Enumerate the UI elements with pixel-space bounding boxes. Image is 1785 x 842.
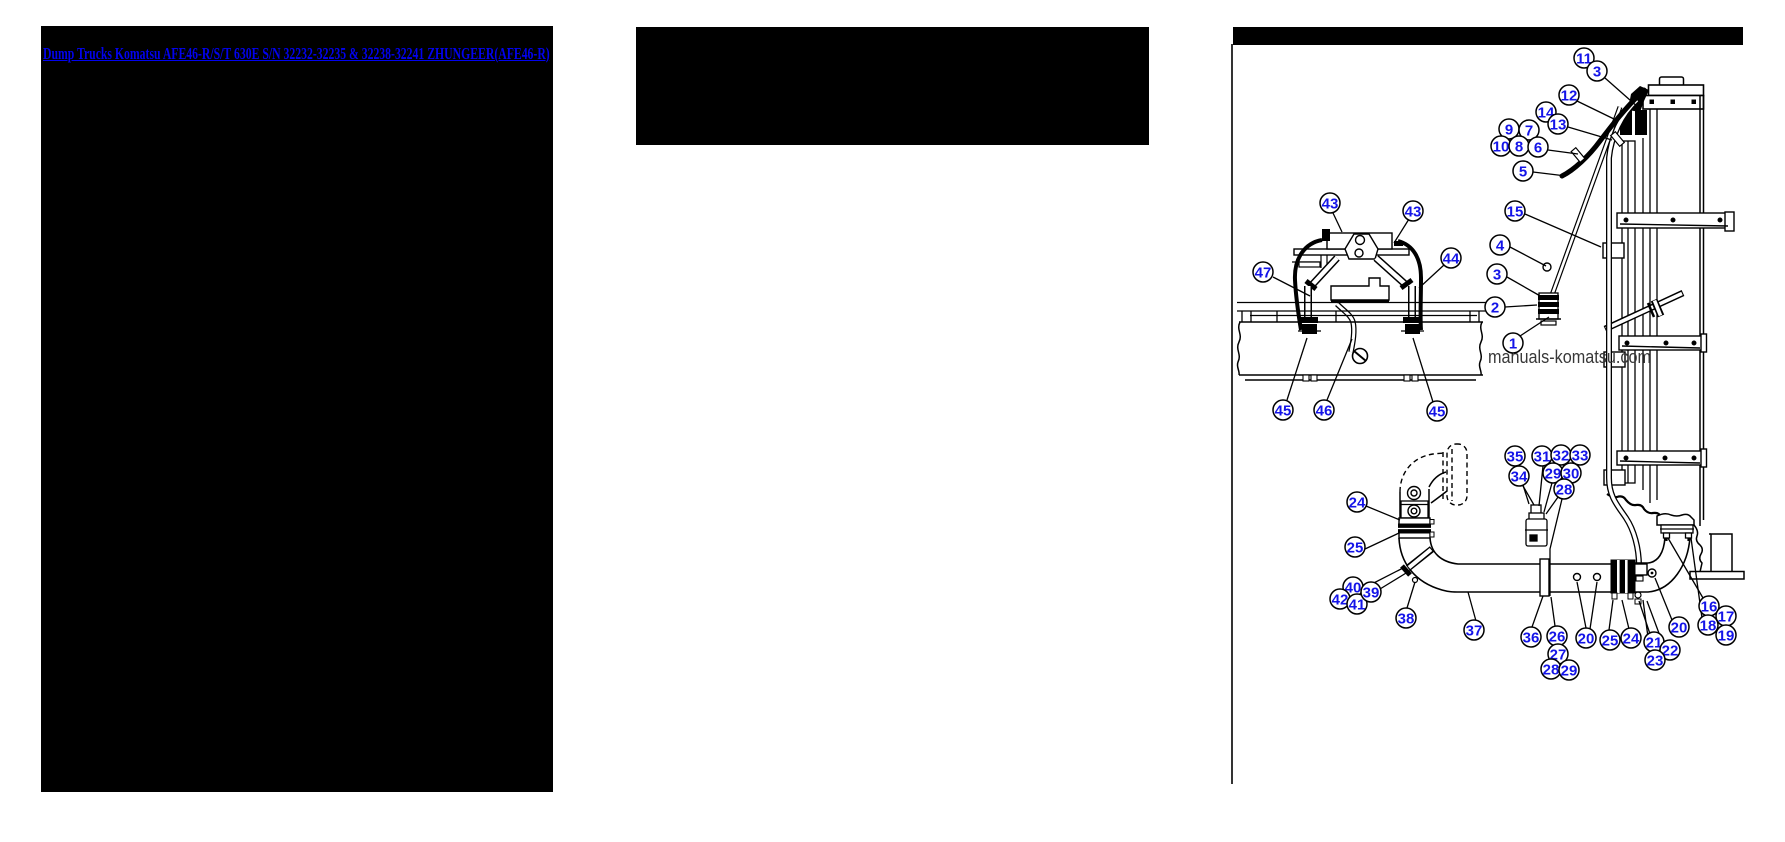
callout 1 [1503,333,1523,353]
leader 43a [1333,213,1342,232]
leader 36 [1532,596,1543,627]
svg-text:28: 28 [1543,662,1560,679]
leader 45a [1287,338,1307,400]
svg-text:13: 13 [1550,117,1567,134]
radiator filler cap [1660,77,1684,86]
svg-text:37: 37 [1466,623,1483,640]
shroud cap [1657,514,1694,525]
drain tube (item 46) [1337,304,1354,352]
callout 33 [1570,445,1590,465]
callout 45 [1427,401,1447,421]
u-bolt nuts [1303,375,1418,381]
callout 10 [1491,136,1511,156]
top right black banner [1233,27,1743,45]
pipe bolt b [1594,574,1601,581]
sensor assembly (items 26-35) [1525,505,1548,546]
svg-text:45: 45 [1275,403,1292,420]
svg-text:43: 43 [1405,204,1422,221]
svg-text:24: 24 [1349,495,1366,512]
channel clamp middle [1604,352,1625,367]
elbow bolt plate [1401,501,1428,518]
svg-text:35: 35 [1507,449,1524,466]
lower pipe bend and run (item 37) [1399,538,1612,592]
callout 30 [1561,463,1581,483]
callout 24 [1621,628,1641,648]
grommet (item 4) [1543,263,1551,271]
svg-text:18: 18 [1700,618,1717,635]
leader 47 [1273,277,1310,296]
vent tube (item 3) [1552,107,1620,295]
leader 15 [1525,214,1601,247]
callout 29 [1543,463,1563,483]
left black panel [41,26,553,792]
radiator left channel [1622,138,1643,490]
tank body [1331,278,1389,301]
leader 45b [1413,338,1433,402]
leader 31 [1539,466,1543,506]
hose stack (items 1,2) [1536,293,1561,325]
bar left stub [1292,262,1321,267]
leader 2 [1505,305,1537,307]
right slant hose [1376,258,1405,284]
callout 2 [1485,297,1505,317]
svg-text:47: 47 [1255,265,1272,282]
callout 6 [1528,137,1548,157]
leader 30 [1546,483,1568,514]
svg-text:29: 29 [1561,663,1578,680]
leader 29t [1544,483,1552,512]
leader 20a1 [1577,582,1586,628]
svg-text:20: 20 [1578,631,1595,648]
svg-text:45: 45 [1429,404,1446,421]
svg-text:39: 39 [1363,585,1380,602]
svg-text:8: 8 [1515,139,1523,156]
outlet hose clamp block (items 21-25) [1611,560,1641,604]
callout 31 [1532,446,1552,466]
tube end fitting [1634,564,1647,575]
svg-text:46: 46 [1316,403,1333,420]
callout 7 [1519,120,1539,140]
svg-text:3: 3 [1493,267,1501,284]
frame rail upper board [1237,303,1489,323]
leader 3b [1507,277,1542,297]
left hose clamps (item 45) [1298,317,1321,334]
svg-text:23: 23 [1647,653,1664,670]
leader 25a [1365,533,1399,549]
svg-text:24: 24 [1623,631,1640,648]
callout 29 [1559,660,1579,680]
dashed turbo flange [1443,444,1467,505]
shroud wavy bottom edge [1607,494,1667,519]
callout 15 [1505,201,1525,221]
svg-text:42: 42 [1332,592,1349,609]
channel clamp lower [1604,470,1625,485]
leader 46 [1327,339,1352,400]
plate clip right [1394,241,1403,246]
callout 23 [1645,650,1665,670]
callout 39 [1361,582,1381,602]
leader 39 [1380,570,1411,589]
leader 24b [1622,600,1629,629]
callout 46 [1314,400,1334,420]
callout 37 [1464,620,1484,640]
leader 12 [1577,101,1614,119]
foot wavy edge [1694,525,1702,572]
right hose clamps (item 45) [1401,317,1424,334]
leader 43b [1394,219,1409,243]
mounting bracket 1 [1617,212,1734,231]
elbow hidden outline (dashed) [1400,453,1444,492]
callout 18 [1698,615,1718,635]
tank support bar [1294,249,1409,255]
left vertical page rule [1231,44,1233,784]
callout 13 [1548,114,1568,134]
right vertical hose [1408,286,1416,320]
leader 44 [1419,265,1444,288]
callout 4 [1490,235,1510,255]
pipe bolt a [1574,574,1581,581]
leader 6 [1548,150,1578,154]
leader 21 [1639,601,1650,634]
callout 38 [1396,608,1416,628]
mounting bracket 2 [1619,334,1707,352]
vent tube cap [1402,566,1410,575]
leader 22 [1647,601,1663,644]
drain nub (item 38) [1413,578,1418,583]
callout 11 [1574,48,1594,68]
callout 9 [1499,119,1519,139]
svg-text:38: 38 [1398,611,1415,628]
callout 16 [1699,596,1719,616]
callout 3 [1587,61,1607,81]
leader 4 [1510,247,1546,266]
svg-text:9: 9 [1505,122,1513,139]
elbow bolt a [1408,487,1421,500]
leader 38 [1407,582,1415,608]
radiator inlet fitting (black elbow) [1628,86,1649,112]
svg-text:10: 10 [1493,139,1510,156]
svg-text:1: 1 [1509,336,1517,353]
svg-text:25: 25 [1602,633,1619,650]
radiator outlet flange [1660,525,1694,541]
elbow clamps (items 24,25) [1398,518,1434,538]
leader 13 [1568,127,1612,140]
svg-text:16: 16 [1701,599,1718,616]
callout 17 [1716,606,1736,626]
svg-text:31: 31 [1534,449,1551,466]
inlet hose clamps [1620,110,1632,135]
tube end nut [1636,576,1643,581]
svg-text:44: 44 [1443,251,1460,268]
callout 42 [1330,589,1350,609]
callout 12 [1559,85,1579,105]
callout 28 [1541,659,1561,679]
leader 40 [1362,567,1405,589]
svg-text:34: 34 [1511,469,1528,486]
radiator top tank [1649,85,1704,96]
leader 18 [1691,538,1702,618]
bend vent tube (items 39,40) [1408,549,1432,568]
frame rail [1237,322,1483,380]
callout 25 [1345,537,1365,557]
foot baseplate [1690,572,1744,580]
left slant clamp [1306,281,1316,289]
tank legs [1321,255,1327,268]
channel clamp upper [1603,243,1624,258]
svg-text:5: 5 [1519,164,1527,181]
left slant hose [1312,258,1337,285]
hose clamp (item 6) [1571,148,1585,163]
leader 1 [1520,317,1549,336]
svg-text:7: 7 [1525,123,1533,140]
svg-text:43: 43 [1322,196,1339,213]
svg-text:28: 28 [1556,482,1573,499]
callout 44 [1441,248,1461,268]
callout 43 [1403,201,1423,221]
elbow body sides [1400,489,1429,518]
tie rod [1605,293,1683,329]
callout 32 [1551,445,1571,465]
callout 5 [1513,161,1533,181]
svg-text:17: 17 [1718,609,1735,626]
leader 20b [1655,578,1672,620]
callout 40 [1343,577,1363,597]
svg-text:36: 36 [1523,630,1540,647]
callout 43 [1320,193,1340,213]
callout 24 [1347,492,1367,512]
callout 27 [1548,644,1568,664]
leader 3 [1605,78,1639,108]
radiator front face [1650,109,1657,503]
elbow neck [1429,472,1447,503]
callout 21 [1644,632,1664,652]
svg-text:19: 19 [1718,628,1735,645]
parts diagram [1230,0,1785,842]
rail screw [1353,349,1368,364]
right outer hose (item 44) [1398,241,1421,330]
leader 24a [1366,506,1400,520]
leader 23 [1643,600,1650,652]
callout 25 [1600,630,1620,650]
svg-text:32: 32 [1553,448,1570,465]
leader 25b [1609,600,1613,630]
right slant clamp [1401,280,1412,288]
left vertical hose [1304,286,1312,320]
callout 47 [1253,262,1273,282]
svg-text:3: 3 [1593,64,1601,81]
callout 36 [1521,627,1541,647]
callout 22 [1660,640,1680,660]
callout 45 [1273,400,1293,420]
middle black panel [636,27,1149,145]
svg-text:4: 4 [1496,238,1505,255]
leader 5 [1533,172,1566,176]
svg-text:15: 15 [1507,204,1524,221]
svg-text:26: 26 [1549,629,1566,646]
callout 35 [1505,446,1525,466]
callout 19 [1716,625,1736,645]
callout 3 [1487,264,1507,284]
tank tent bracket [1345,234,1378,259]
leader 35 [1517,466,1529,504]
svg-text:25: 25 [1347,540,1364,557]
callout 28 [1554,479,1574,499]
plate clip black [1322,229,1330,241]
upper radiator hose (item 5) [1562,90,1644,176]
callout 8 [1509,136,1529,156]
callout 20 [1576,628,1596,648]
svg-text:12: 12 [1561,88,1578,105]
tank top plate [1327,233,1392,249]
callout 20 [1669,617,1689,637]
overflow tube (item 15) [1609,100,1639,566]
hose clamp (item 13) [1611,132,1625,147]
svg-text:33: 33 [1572,448,1589,465]
foot side block [1709,534,1732,572]
callout 26 [1547,626,1567,646]
svg-text:6: 6 [1534,140,1542,157]
leader 37 [1468,592,1476,621]
leader 16 [1668,538,1703,598]
leader 20a2 [1590,582,1597,629]
leader 34 [1523,486,1534,505]
leader 28 polyline [1550,499,1562,596]
elbow bolt b [1408,505,1420,517]
leader 26 [1551,597,1555,626]
outlet elbow to radiator [1635,537,1690,592]
mounting bracket 3 [1617,449,1707,467]
callout 14 [1536,102,1556,122]
radiator body right edge [1700,95,1704,526]
left outer hose (item 47) [1295,240,1322,330]
drain plug (item 20) [1648,569,1656,577]
svg-text:2: 2 [1491,300,1499,317]
radiator bolt strip [1643,96,1704,110]
link title [43,44,526,64]
inlet bolt [1612,124,1618,130]
callout 41 [1347,594,1367,614]
callout 34 [1509,466,1529,486]
svg-text:20: 20 [1671,620,1688,637]
pipe joint ring (item 36) [1540,559,1549,596]
